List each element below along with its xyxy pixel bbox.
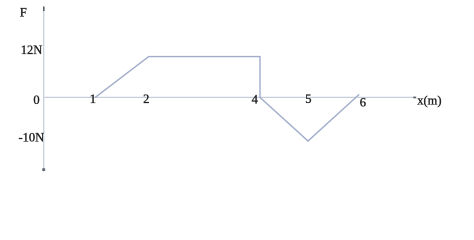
y-axis arrow tip xyxy=(43,7,45,12)
svg-text:6: 6 xyxy=(360,95,366,109)
svg-text:x(m): x(m) xyxy=(417,93,441,107)
svg-text:0: 0 xyxy=(33,93,39,107)
svg-text:F: F xyxy=(20,6,27,20)
svg-text:4: 4 xyxy=(252,93,259,107)
svg-text:-10N: -10N xyxy=(19,131,45,145)
x-axis xyxy=(44,96,413,98)
y-axis end dot xyxy=(42,168,45,171)
force curve xyxy=(95,57,359,141)
x-axis arrow tip xyxy=(413,97,416,99)
svg-text:12N: 12N xyxy=(21,43,43,57)
svg-text:2: 2 xyxy=(143,92,149,106)
y-axis xyxy=(43,7,45,170)
svg-text:1: 1 xyxy=(90,92,96,106)
svg-text:5: 5 xyxy=(305,92,311,106)
